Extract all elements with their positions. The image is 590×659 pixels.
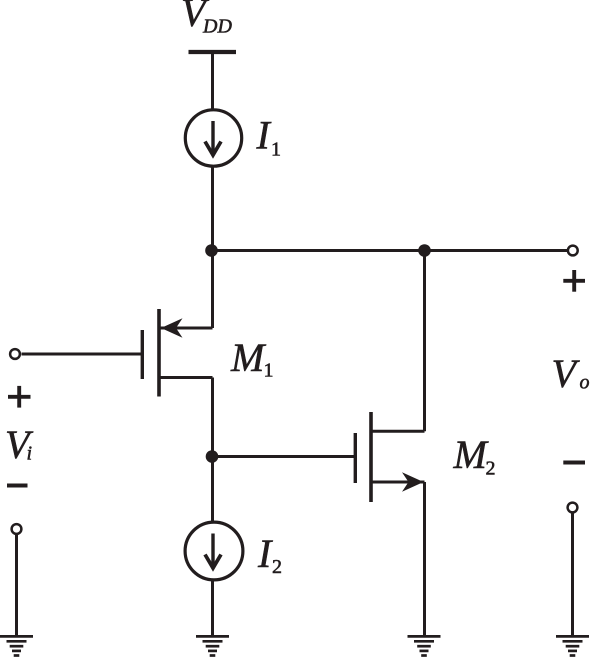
- svg-text:o: o: [580, 372, 590, 394]
- svg-text:2: 2: [486, 458, 496, 480]
- svg-text:1: 1: [271, 138, 281, 160]
- svg-text:1: 1: [264, 360, 274, 382]
- svg-text:I: I: [256, 113, 272, 158]
- svg-text:M: M: [453, 432, 490, 477]
- svg-text:2: 2: [272, 556, 282, 578]
- svg-text:V: V: [552, 351, 581, 396]
- svg-text:I: I: [257, 531, 273, 576]
- svg-text:DD: DD: [202, 16, 232, 38]
- svg-text:M: M: [230, 335, 267, 380]
- svg-text:i: i: [27, 443, 33, 465]
